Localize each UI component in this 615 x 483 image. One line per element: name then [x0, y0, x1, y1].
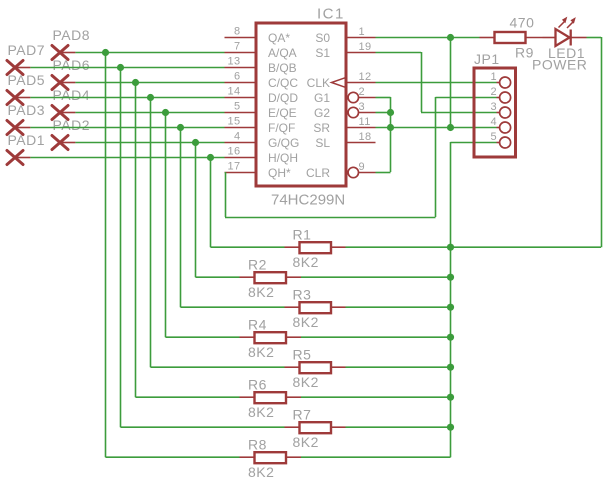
- wire to R8 left: [106, 456, 240, 458]
- junction R2 net: [447, 274, 454, 281]
- label JP1: [474, 51, 500, 67]
- junction node pad row 7: [177, 124, 184, 131]
- wire PAD6 to IC: [75, 82, 224, 84]
- junction G2: [387, 109, 394, 116]
- wire to R7 left: [121, 426, 285, 428]
- svg-text:7: 7: [234, 41, 241, 53]
- svg-text:12: 12: [359, 71, 372, 83]
- svg-text:16: 16: [227, 146, 240, 158]
- IC1 pin 16 H/QH: [225, 146, 299, 165]
- svg-text:8K2: 8K2: [293, 314, 319, 330]
- IC1 pin 13 B/QB: [225, 56, 297, 75]
- IC1 pin 6 C/QC: [225, 71, 299, 90]
- junction SR x450: [447, 124, 454, 131]
- resistor R8: [240, 436, 302, 479]
- svg-text:14: 14: [227, 86, 240, 98]
- wire R2 right: [301, 276, 451, 278]
- wire R1 row to right: [451, 246, 602, 248]
- IC1 pin 9 CLR: [306, 161, 376, 180]
- svg-text:SR: SR: [313, 121, 330, 135]
- svg-text:19: 19: [359, 41, 372, 53]
- svg-text:JP1: JP1: [474, 51, 500, 67]
- IC1 pin 8 QA*: [225, 26, 291, 45]
- pad PAD6: [52, 57, 90, 90]
- svg-text:R7: R7: [293, 406, 312, 422]
- resistor R5: [285, 346, 346, 389]
- svg-text:C/QC: C/QC: [268, 76, 298, 90]
- IC1 pin 4 G/QG: [225, 131, 300, 150]
- wire R3 right: [346, 306, 451, 308]
- pad PAD4: [52, 87, 90, 120]
- IC1 pin 18 SL: [315, 131, 375, 150]
- IC1 pin 7 A/QA: [225, 41, 297, 60]
- svg-text:H/QH: H/QH: [268, 151, 298, 165]
- svg-text:3: 3: [359, 101, 366, 113]
- svg-text:POWER: POWER: [532, 57, 587, 73]
- svg-text:74HC299N: 74HC299N: [271, 192, 345, 209]
- wire vertical to R2: [195, 142, 197, 277]
- wire right vertical: [601, 37, 603, 247]
- svg-text:R8: R8: [248, 436, 267, 452]
- svg-text:1: 1: [490, 71, 497, 83]
- svg-text:18: 18: [359, 131, 372, 143]
- IC1 pin 1 S0: [315, 26, 375, 45]
- svg-text:CLK: CLK: [307, 76, 330, 90]
- IC1 pin 19 S1: [315, 41, 375, 60]
- svg-text:4: 4: [234, 131, 241, 143]
- label LED1: [548, 45, 585, 61]
- svg-text:2: 2: [359, 86, 366, 98]
- svg-text:8: 8: [234, 26, 241, 38]
- wire PAD1 to IC: [30, 157, 224, 159]
- resistor R7: [285, 406, 346, 449]
- wire PAD7 to IC: [30, 67, 224, 69]
- wire CLK to JP1 pin 1: [376, 82, 497, 84]
- svg-text:R6: R6: [248, 376, 267, 392]
- svg-text:R2: R2: [248, 256, 267, 272]
- IC1 pin 15 F/QF: [225, 116, 296, 135]
- wire QH* net to JP1 pin 2: [225, 97, 497, 218]
- wire R1 right: [346, 246, 451, 248]
- junction node pad row 3: [117, 64, 124, 71]
- wire vertical to R1: [210, 157, 212, 247]
- wire R5 right: [346, 366, 451, 368]
- svg-text:S1: S1: [315, 46, 330, 60]
- svg-text:6: 6: [234, 71, 241, 83]
- svg-text:8K2: 8K2: [293, 434, 319, 450]
- svg-text:470: 470: [510, 15, 535, 31]
- JP1 pin 4: [490, 116, 510, 133]
- svg-text:4: 4: [490, 116, 497, 128]
- wire R7 right: [346, 426, 451, 428]
- IC1 pin 14 D/QD: [225, 86, 299, 105]
- resistor R1: [285, 226, 346, 269]
- IC1 pin 5 E/QE: [225, 101, 297, 120]
- svg-text:G/QG: G/QG: [268, 136, 299, 150]
- junction R3 net: [447, 304, 454, 311]
- LED LED1: [543, 17, 587, 46]
- wire JP1 pin 5: [451, 142, 497, 144]
- svg-text:S0: S0: [315, 31, 330, 45]
- wire vertical to R8: [105, 52, 107, 457]
- wire S0 row: [376, 37, 480, 39]
- svg-text:8K2: 8K2: [248, 344, 274, 360]
- svg-text:F/QF: F/QF: [268, 121, 295, 135]
- JP1 pin 5: [490, 131, 510, 148]
- svg-text:QH*: QH*: [268, 166, 291, 180]
- value label POWER: [532, 57, 587, 73]
- svg-text:G1: G1: [314, 91, 330, 105]
- svg-text:R4: R4: [248, 316, 267, 332]
- wire to R3 left: [181, 306, 285, 308]
- junction R1 net: [447, 244, 454, 251]
- JP1 pin 2: [490, 86, 510, 103]
- wire PAD8 to IC: [75, 52, 224, 54]
- junction node pad row 4: [132, 79, 139, 86]
- wire G1 G2 CLR net: [376, 97, 391, 173]
- svg-text:13: 13: [227, 56, 240, 68]
- wire to R6 left: [136, 396, 240, 398]
- svg-text:8K2: 8K2: [248, 404, 274, 420]
- junction SR x390: [387, 124, 394, 131]
- IC1 pin 17 QH*: [225, 161, 292, 180]
- wire SR to JP1 pin 4: [376, 127, 497, 129]
- wire R4 right: [301, 336, 451, 338]
- label R9: [515, 45, 534, 61]
- junction R5 net: [447, 364, 454, 371]
- junction R4 net: [447, 334, 454, 341]
- wire vertical JP1-5 to resistors: [450, 142, 452, 457]
- svg-text:17: 17: [227, 161, 240, 173]
- wire PAD2 to IC: [75, 142, 224, 144]
- svg-text:SL: SL: [315, 136, 330, 150]
- resistor R3: [285, 286, 346, 329]
- svg-text:PAD5: PAD5: [8, 72, 46, 88]
- label IC1: [317, 6, 345, 23]
- svg-text:B/QB: B/QB: [268, 61, 297, 75]
- junction node pad row 5: [147, 94, 154, 101]
- junction node pad row 2: [102, 49, 109, 56]
- junction node pad row 8: [192, 139, 199, 146]
- pad PAD1: [7, 132, 45, 165]
- svg-text:PAD4: PAD4: [53, 87, 91, 103]
- junction R7 net: [447, 424, 454, 431]
- pad PAD7: [7, 42, 45, 75]
- svg-text:CLR: CLR: [306, 166, 330, 180]
- svg-text:11: 11: [359, 116, 371, 128]
- wire to R5 left: [151, 366, 285, 368]
- svg-text:PAD2: PAD2: [53, 117, 91, 133]
- svg-text:IC1: IC1: [317, 6, 345, 23]
- pad PAD5: [7, 72, 45, 105]
- wire PAD5 to IC: [30, 97, 224, 99]
- wire R6 right: [301, 396, 451, 398]
- resistor R2: [240, 256, 302, 299]
- IC1 pin 12 CLK: [307, 71, 376, 90]
- wire vertical S0 to SR: [450, 37, 452, 127]
- svg-text:3: 3: [490, 101, 497, 113]
- wire vertical to R7: [120, 67, 122, 427]
- svg-text:1: 1: [359, 26, 366, 38]
- svg-text:8K2: 8K2: [248, 284, 274, 300]
- junction node pad row 6: [162, 109, 169, 116]
- wire to R4 left: [166, 336, 240, 338]
- value label 74HC299N: [271, 192, 345, 209]
- svg-text:PAD8: PAD8: [53, 27, 91, 43]
- value label 470: [510, 15, 535, 31]
- svg-text:8K2: 8K2: [248, 464, 274, 480]
- resistor R9: [480, 32, 543, 43]
- wire PAD3 to IC: [30, 127, 224, 129]
- svg-text:5: 5: [490, 131, 497, 143]
- svg-text:8K2: 8K2: [293, 254, 319, 270]
- svg-text:R3: R3: [293, 286, 312, 302]
- wire S1 net: [376, 52, 497, 113]
- wire vertical to R5: [150, 97, 152, 367]
- wire vertical to R4: [165, 112, 167, 337]
- connector JP1 box: [474, 68, 516, 157]
- junction R6 net: [447, 394, 454, 401]
- svg-text:PAD3: PAD3: [8, 102, 46, 118]
- svg-text:D/QD: D/QD: [268, 91, 298, 105]
- junction S0: [447, 34, 454, 41]
- JP1 pin 3: [490, 101, 510, 118]
- svg-text:15: 15: [227, 116, 240, 128]
- pad PAD3: [7, 102, 45, 135]
- svg-text:A/QA: A/QA: [268, 46, 297, 60]
- svg-text:PAD1: PAD1: [8, 132, 46, 148]
- JP1 pin 1: [490, 71, 510, 88]
- wire LED to right vertical: [587, 37, 602, 39]
- pad PAD8: [52, 27, 90, 60]
- svg-text:G2: G2: [314, 106, 330, 120]
- junction node pad row 9: [207, 154, 214, 161]
- svg-text:9: 9: [359, 161, 366, 173]
- svg-text:2: 2: [490, 86, 497, 98]
- IC1 pin 3 G2: [314, 101, 376, 120]
- svg-text:R5: R5: [293, 346, 312, 362]
- svg-text:8K2: 8K2: [293, 374, 319, 390]
- svg-text:5: 5: [234, 101, 241, 113]
- svg-text:PAD7: PAD7: [8, 42, 46, 58]
- resistor R4: [240, 316, 302, 359]
- IC1 pin 11 SR: [313, 116, 375, 135]
- wire to R1 left: [211, 246, 285, 248]
- svg-text:PAD6: PAD6: [53, 57, 91, 73]
- wire R8 right: [301, 456, 451, 458]
- wire vertical to R6: [135, 82, 137, 397]
- svg-text:R1: R1: [293, 226, 312, 242]
- pad PAD2: [52, 117, 90, 150]
- IC IC1 74HC299N box: [256, 23, 346, 186]
- svg-text:QA*: QA*: [268, 31, 290, 45]
- wire to R2 left: [196, 276, 240, 278]
- wire PAD4 to IC: [75, 112, 224, 114]
- wire vertical to R3: [180, 127, 182, 307]
- svg-text:E/QE: E/QE: [268, 106, 297, 120]
- IC1 pin 2 G1: [314, 86, 376, 105]
- resistor R6: [240, 376, 302, 419]
